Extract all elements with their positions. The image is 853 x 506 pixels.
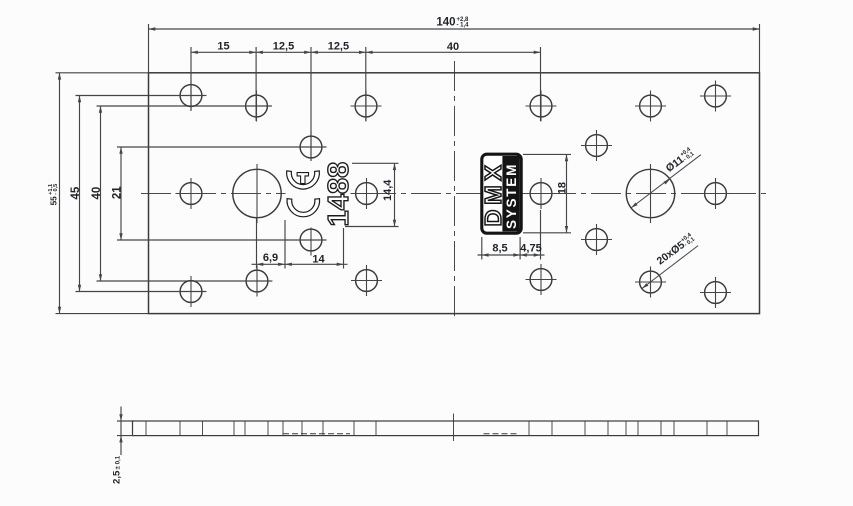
svg-text:55: 55: [50, 196, 59, 206]
svg-text:4,75: 4,75: [520, 242, 541, 254]
svg-text:18: 18: [556, 182, 568, 194]
svg-text:21: 21: [111, 186, 123, 199]
svg-text:140: 140: [436, 16, 455, 28]
svg-text:40: 40: [91, 187, 103, 200]
svg-text:1488: 1488: [323, 162, 355, 227]
svg-text:- 1,4: - 1,4: [457, 22, 470, 28]
svg-text:SYSTEM: SYSTEM: [504, 163, 519, 229]
svg-text:12,5: 12,5: [328, 41, 349, 53]
svg-text:45: 45: [70, 186, 82, 199]
svg-text:12,5: 12,5: [273, 41, 294, 53]
svg-text:15: 15: [217, 41, 229, 53]
svg-text:± 0,1: ± 0,1: [115, 455, 122, 469]
svg-text:2,5: 2,5: [112, 470, 123, 484]
svg-text:8,5: 8,5: [492, 242, 507, 254]
svg-text:14,4: 14,4: [382, 179, 394, 201]
svg-text:DMX: DMX: [480, 160, 506, 226]
svg-text:- 0,5: - 0,5: [53, 184, 59, 195]
svg-text:14: 14: [312, 253, 325, 265]
svg-text:6,9: 6,9: [263, 252, 278, 264]
svg-text:40: 40: [447, 41, 459, 53]
